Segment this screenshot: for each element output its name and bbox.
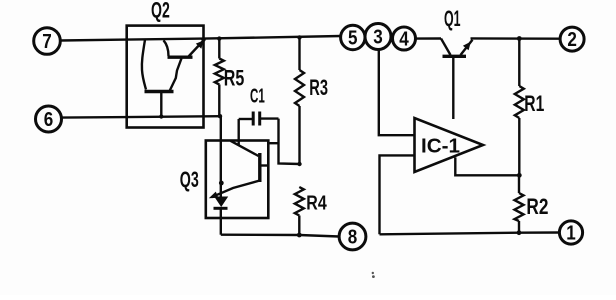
terminal 7 [34,28,61,55]
transistor Q2 label [151,0,170,23]
svg-text:C1: C1 [250,86,265,108]
transistor Q3 box [206,141,268,219]
resistor R5 [215,39,224,117]
junction zener / Q3 emitter [219,181,224,186]
junction R3 top [297,35,301,39]
junction R5 / wire 6 [218,114,222,118]
capacitor C1 label [250,86,265,108]
label R4 [306,192,327,214]
junction feedback node [517,173,522,178]
terminal 2 [560,27,584,51]
label R5 [224,66,245,91]
wire terminal 4 to Q1 [416,37,442,39]
wire 6 to R5/zener column [62,116,222,117]
svg-text:Q1: Q1 [444,6,461,31]
resistor R4 [295,187,304,235]
wire terminal 3 to IC-1 + input [379,50,415,136]
Q3 base bar [258,153,261,182]
Q2 inner transistor B (small) [164,40,204,90]
Q2 inner transistor A (large) [142,40,174,116]
svg-text:2: 2 [567,29,577,51]
svg-text:IC-1: IC-1 [421,136,460,158]
junction R2 bottom [517,230,522,235]
resistor R3 [295,37,304,164]
svg-text:R2: R2 [526,194,548,219]
label R3 [309,75,328,100]
svg-text:1: 1 [566,223,576,245]
svg-text:7: 7 [42,31,52,53]
svg-text:6: 6 [44,109,54,131]
svg-text:8: 8 [348,227,358,249]
capacitor C1 [239,112,279,126]
zener diode D1 [214,116,229,235]
op-amp IC-1 [415,118,484,172]
Q3 base lead [260,164,269,166]
svg-text:R4: R4 [306,192,327,214]
transistor Q3 label [180,167,199,192]
terminal 3 [365,24,391,50]
wire C1 left to Q3 collector [237,119,239,145]
terminal 1 [559,221,582,245]
terminal 8 [339,223,366,250]
resistor R2 [515,175,524,232]
terminal 6 [36,106,62,132]
transistor Q2 box [127,26,204,128]
wire 7 to Q2 [61,38,127,41]
junction R4 bottom [297,233,302,238]
svg-text:R1: R1 [524,91,544,116]
junction R1 top [517,36,522,41]
svg-text:R5: R5 [224,66,245,91]
terminal 5 [341,25,365,49]
svg-text:R3: R3 [309,75,328,100]
wire top through Q2 [127,36,341,40]
wire C1 right branch down [279,119,300,164]
junction Q2 stem / wire 6 [159,114,163,118]
svg-text:4: 4 [399,29,409,51]
label R1 [524,91,544,116]
transistor Q1 [441,39,473,120]
junction Q2 emitter / top wire [201,37,205,41]
speckle mark [372,272,375,278]
transistor Q1 label [444,6,461,31]
Q3 collector line [231,141,259,156]
svg-text:Q3: Q3 [180,167,199,192]
label R2 [526,194,548,219]
wire IC-1 to feedback node [455,157,519,175]
wire bottom-left rail [221,235,339,237]
junction R3/R4/C1 [297,162,301,166]
svg-text:3: 3 [373,27,383,49]
svg-text:5: 5 [348,28,358,50]
wire Q1 emitter to terminal 2 [471,37,560,40]
wire stub Q3 box to C1 branch [268,142,278,144]
svg-text:Q2: Q2 [151,0,170,23]
wire bottom-right rail [380,233,560,235]
wire IC-1 - input to bottom rail [380,155,415,234]
terminal 4 [393,27,416,51]
Q3 emitter with arrow [209,181,260,199]
junction R5 top [217,36,221,40]
resistor R1 [515,39,524,176]
